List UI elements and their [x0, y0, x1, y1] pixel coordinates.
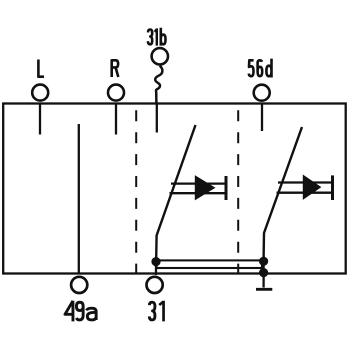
- wire L stub: [39, 104, 41, 135]
- wire 31 drop: [155, 258, 157, 275]
- label 31 digit 3: [149, 302, 155, 320]
- label 49a digit 9: [76, 302, 83, 320]
- actuator arrow left: [195, 176, 214, 200]
- label 31b digit 1: [155, 28, 157, 45]
- label 49a digit 4: [65, 301, 74, 322]
- bridge bar: [157, 260, 263, 268]
- housing box: [3, 104, 346, 274]
- wire ground drop: [262, 256, 264, 288]
- terminal 31b circle: [152, 48, 168, 64]
- label 31b digit 3: [148, 30, 152, 45]
- wire 31b squiggle: [155, 66, 162, 104]
- terminal R circle: [108, 85, 124, 101]
- terminal 49a circle: [71, 277, 87, 293]
- label 56d digit 6: [258, 60, 263, 76]
- actuator arrow right: [303, 175, 320, 199]
- wire R stub: [115, 104, 117, 135]
- label 56d digit 5: [249, 60, 254, 76]
- switch lever left: [156, 125, 195, 258]
- label 31b letter b: [161, 28, 166, 46]
- actuator end bar right: [331, 175, 334, 200]
- junction dot 31: [151, 257, 160, 266]
- label 49a letter a: [87, 308, 97, 320]
- actuator end bar left: [225, 176, 228, 200]
- actuator tines left: [170, 184, 227, 194]
- junction dot right upper: [259, 257, 268, 266]
- terminal 31 circle: [147, 277, 163, 293]
- wire 49a vertical: [78, 124, 80, 274]
- dashed separator left: [135, 105, 137, 274]
- label L: [38, 60, 44, 77]
- actuator tines right: [277, 183, 333, 193]
- wire 31b stub: [156, 104, 158, 133]
- terminal 56d circle: [254, 85, 270, 101]
- ground bar: [256, 288, 272, 291]
- switch lever right: [264, 127, 302, 258]
- terminal L circle: [32, 85, 48, 101]
- label 56d letter d: [266, 59, 271, 78]
- label 31 digit 1: [159, 301, 163, 322]
- junction dot right lower: [259, 268, 268, 277]
- wire 56d stub: [261, 104, 263, 131]
- label R: [112, 60, 119, 77]
- dashed separator right: [237, 105, 239, 274]
